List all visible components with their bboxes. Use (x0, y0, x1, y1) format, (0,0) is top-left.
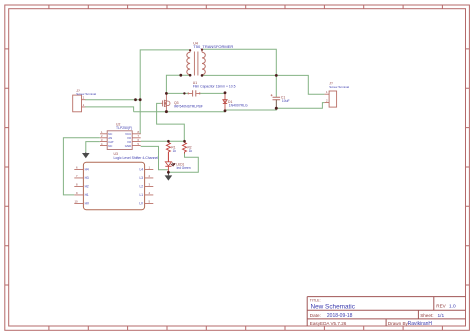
film capacitor U1 (188, 81, 235, 97)
node (189, 74, 192, 77)
svg-text:1k: 1k (189, 149, 193, 153)
resistor R1 (166, 141, 176, 162)
svg-text:TITLE:: TITLE: (310, 298, 321, 302)
svg-text:Film Capacitor 13mm + 10.5: Film Capacitor 13mm + 10.5 (193, 85, 236, 89)
wire (202, 74, 276, 76)
svg-text:L2: L2 (139, 185, 143, 189)
wire (85, 107, 134, 112)
node (201, 49, 203, 51)
resistor R2 (183, 141, 193, 153)
svg-text:led Green: led Green (177, 166, 191, 170)
svg-text:H3: H3 (85, 176, 89, 180)
svg-text:IRF540NSTRLPBF: IRF540NSTRLPBF (174, 105, 203, 109)
svg-text:H4: H4 (85, 168, 89, 172)
svg-text:Logic Level Shifter 4-Channel: Logic Level Shifter 4-Channel (114, 156, 159, 160)
svg-text:L4: L4 (139, 168, 143, 172)
node (139, 98, 142, 101)
node (165, 92, 168, 95)
svg-text:Screw Terminal: Screw Terminal (329, 85, 349, 89)
svg-text:1.0: 1.0 (449, 304, 456, 310)
svg-text:TLP250(F): TLP250(F) (116, 126, 132, 130)
svg-text:L1: L1 (139, 193, 143, 197)
svg-text:L3: L3 (139, 176, 143, 180)
svg-text:1k: 1k (173, 149, 177, 153)
node (224, 91, 227, 94)
ground (165, 172, 173, 180)
svg-text:H1: H1 (85, 193, 89, 197)
node (134, 98, 137, 101)
level shifter U3 (74, 152, 158, 210)
svg-text:Sheet:: Sheet: (420, 313, 433, 318)
svg-text:GND: GND (125, 144, 131, 148)
transistor Q3 (161, 93, 203, 111)
wire (275, 75, 277, 97)
wire (141, 146, 169, 169)
LED LED1 (165, 152, 191, 172)
svg-text:1/1: 1/1 (438, 313, 445, 319)
wire (140, 50, 190, 134)
node (224, 109, 227, 112)
svg-text:New Schematic: New Schematic (311, 304, 356, 311)
svg-text:EasyEDA V5.7.26: EasyEDA V5.7.26 (310, 321, 347, 326)
wire (166, 92, 225, 94)
svg-text:10uF: 10uF (282, 99, 290, 103)
node (275, 74, 278, 77)
title block (307, 297, 465, 327)
svg-text:H2: H2 (85, 185, 89, 189)
wire (202, 49, 276, 75)
node (275, 107, 278, 110)
node (189, 49, 191, 51)
ground (82, 152, 90, 158)
svg-text:2018-09-18: 2018-09-18 (327, 313, 353, 319)
wire (166, 75, 190, 93)
svg-text:REV: REV (436, 304, 446, 309)
wire (86, 142, 100, 152)
op-amp U2 TLP250 optocoupler (100, 123, 141, 150)
wire (168, 152, 198, 172)
svg-text:RavikiranH: RavikiranH (408, 321, 433, 327)
wire (85, 99, 140, 101)
node (167, 171, 170, 174)
svg-text:T50_TRANSFORMER: T50_TRANSFORMER (193, 44, 233, 49)
svg-text:1N4007RLG: 1N4007RLG (229, 104, 248, 108)
node (179, 74, 182, 77)
node (183, 92, 185, 94)
svg-text:Drawn By:: Drawn By: (388, 321, 409, 326)
svg-text:NC: NC (108, 144, 112, 148)
screw terminal J1 (73, 89, 97, 112)
transformer U4 (187, 41, 234, 75)
screw terminal J2 (325, 82, 350, 108)
svg-text:Date:: Date: (310, 313, 321, 318)
wire (157, 103, 185, 141)
node (167, 140, 170, 143)
svg-text:10: 10 (75, 200, 79, 204)
svg-text:Screw Terminal: Screw Terminal (76, 92, 96, 96)
node (183, 140, 186, 143)
side ticks (5, 49, 9, 285)
node (165, 110, 168, 113)
diode D1 (223, 93, 248, 111)
capacitor C1 (271, 94, 290, 108)
wire (134, 103, 325, 112)
top/bottom ticks (49, 5, 443, 9)
wire (276, 75, 324, 94)
wire (141, 140, 185, 142)
node (201, 74, 204, 77)
wire (63, 138, 100, 195)
